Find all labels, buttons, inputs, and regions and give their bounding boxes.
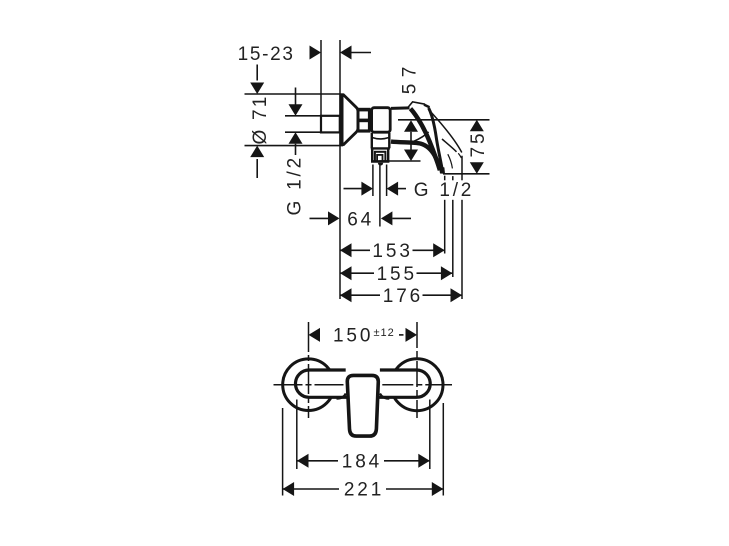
dimension 176 — [340, 286, 462, 307]
centre line vertical left — [308, 322, 310, 418]
extension line pipe bottom — [285, 131, 322, 133]
right escutcheon circle — [391, 359, 443, 411]
handle base top line — [391, 106, 410, 110]
dimension O71 — [250, 65, 271, 179]
nut facet top — [360, 111, 368, 118]
nut facet bottom — [360, 122, 368, 129]
dimension 15-23 — [238, 44, 371, 65]
svg-text:176: 176 — [383, 286, 423, 307]
svg-text:153: 153 — [372, 241, 412, 262]
handle side edge line 2 — [442, 139, 457, 152]
left escutcheon circle — [283, 359, 335, 411]
svg-text:155: 155 — [377, 264, 417, 285]
dimension G1/2 right — [344, 182, 407, 196]
handle cap — [408, 102, 425, 107]
dimension 184 — [297, 451, 430, 472]
bar-handle fillet left — [337, 394, 346, 399]
dimension 75 — [468, 120, 489, 174]
centre line horizontal right part — [382, 384, 452, 386]
svg-text:±12: ±12 — [374, 327, 395, 339]
reference line outlet bottom — [380, 160, 421, 162]
svg-text:75: 75 — [468, 131, 489, 158]
dimension 221 — [283, 480, 444, 501]
centre line vertical right — [416, 322, 418, 418]
union nut — [358, 108, 371, 133]
wall line right — [339, 40, 341, 299]
dimension 64 — [310, 209, 412, 230]
svg-text:15-23: 15-23 — [238, 44, 295, 65]
supply pipe in wall — [321, 116, 340, 133]
handle front view — [346, 366, 380, 374]
reference line handle tip — [443, 173, 490, 175]
handle side edge line — [429, 110, 462, 152]
escutcheon cone — [343, 94, 358, 145]
extension line pipe top — [285, 115, 322, 117]
handle lever back edge — [429, 108, 443, 171]
svg-text:G 1/2: G 1/2 — [285, 155, 306, 215]
dimension 153 — [340, 241, 445, 262]
outlet nipple — [378, 163, 384, 166]
escutcheon wall flange — [339, 93, 343, 146]
bar-handle fillet right — [380, 394, 389, 399]
lower housing — [372, 133, 390, 148]
outlet centre line — [379, 165, 381, 227]
dimension 57 — [400, 60, 421, 161]
extension line 221 right — [442, 403, 444, 496]
extension line 176 vertical — [461, 156, 463, 299]
dimension 155 — [340, 264, 452, 285]
arm fillet — [414, 132, 429, 142]
svg-text:150: 150 — [333, 326, 373, 347]
centre line horizontal left part — [274, 384, 344, 386]
handle tip — [439, 166, 445, 174]
handle support arm — [391, 142, 439, 167]
handle lever front edge — [411, 109, 440, 171]
svg-text:Ø 71: Ø 71 — [250, 95, 271, 145]
dimension 150 +-12 — [309, 326, 418, 347]
extension line bottom of escutcheon — [245, 145, 344, 147]
svg-text:64: 64 — [347, 209, 374, 230]
swing arc dashes — [448, 154, 453, 168]
svg-text:221: 221 — [344, 480, 384, 501]
extension line 184 left — [296, 400, 298, 470]
svg-text:G 1/2: G 1/2 — [414, 180, 474, 201]
label G1/2 right — [411, 180, 473, 200]
svg-text:57: 57 — [400, 60, 421, 94]
wall line left — [320, 40, 322, 116]
reference line handle top — [398, 119, 490, 121]
dimension G1/2 left — [285, 88, 306, 216]
extension line 155 vertical — [452, 176, 454, 277]
extension line top of escutcheon — [245, 93, 341, 95]
extension lines below outlet — [372, 165, 374, 197]
mixer body — [372, 108, 391, 133]
svg-text:184: 184 — [342, 451, 382, 472]
outlet block — [372, 148, 388, 161]
extension line 221 left — [282, 408, 284, 496]
body bar — [296, 370, 431, 397]
extension line handle tip vertical — [444, 176, 446, 254]
extension line 184 right — [429, 400, 431, 470]
